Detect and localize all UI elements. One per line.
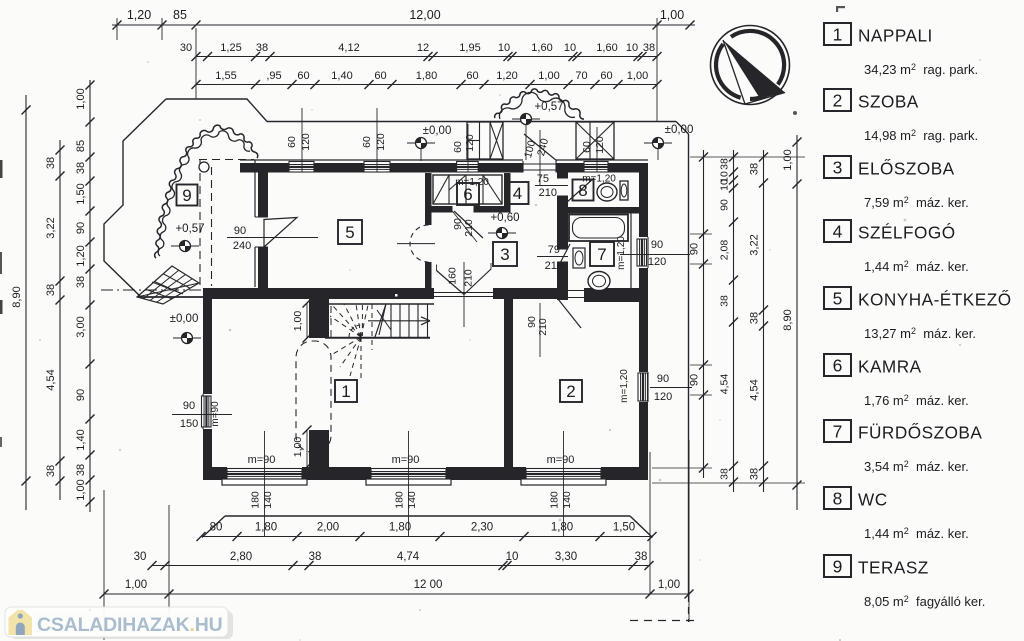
svg-text:NAPPALI: NAPPALI (858, 26, 933, 46)
svg-text:180: 180 (250, 491, 262, 509)
svg-text:180: 180 (549, 491, 561, 509)
svg-text:90: 90 (75, 389, 87, 401)
svg-text:+0,60: +0,60 (490, 212, 519, 224)
svg-text:±0,00: ±0,00 (665, 124, 694, 136)
svg-text:2,08: 2,08 (719, 240, 731, 261)
svg-text:m=90: m=90 (547, 454, 575, 466)
svg-text:1,00: 1,00 (627, 70, 648, 82)
svg-text:10: 10 (564, 42, 576, 54)
svg-text:38: 38 (719, 468, 731, 480)
svg-text:1: 1 (341, 382, 350, 401)
svg-text:210: 210 (537, 318, 549, 336)
WC room8 cistern/sink (620, 181, 628, 200)
svg-text:210: 210 (463, 219, 475, 237)
svg-text:1,40: 1,40 (331, 70, 352, 82)
svg-text:1,95: 1,95 (459, 42, 480, 54)
stair walk line with arrow (368, 320, 428, 322)
svg-text:3,22: 3,22 (45, 217, 57, 238)
svg-text:4,54: 4,54 (749, 379, 761, 400)
window top W4 (60/120) (584, 162, 608, 173)
svg-text:210: 210 (545, 260, 563, 272)
svg-text:140: 140 (561, 491, 573, 509)
svg-text:10: 10 (506, 551, 519, 563)
svg-text:90: 90 (234, 225, 246, 237)
stair risers (390, 304, 392, 338)
wall: room1/room2 partition (504, 299, 513, 467)
room label 5 KONYHA (338, 220, 362, 244)
svg-text:1,00: 1,00 (292, 311, 304, 332)
svg-text:90: 90 (689, 374, 701, 386)
svg-text:2,30: 2,30 (471, 522, 493, 534)
svg-text:m=90: m=90 (248, 454, 276, 466)
svg-text:1,20: 1,20 (75, 245, 87, 266)
toilet room7 (588, 272, 610, 291)
eaves outline right edge (688, 134, 690, 595)
stair boundary (328, 303, 434, 305)
svg-text:140: 140 (406, 491, 418, 509)
logo house icon (9, 610, 33, 635)
legend item 1 NAPPALI (824, 23, 851, 45)
svg-text:4,12: 4,12 (338, 42, 359, 54)
svg-text:7: 7 (597, 245, 606, 264)
bottom extension lines (103, 490, 105, 640)
svg-text:1,50: 1,50 (75, 183, 87, 204)
legend item 5 KONYHA-ÉTKEZŐ (824, 287, 851, 309)
svg-text:1,44 m2 máz. ker.: 1,44 m2 máz. ker. (864, 259, 969, 274)
svg-text:1,00: 1,00 (660, 8, 684, 22)
svg-text:3,54 m2 máz. ker.: 3,54 m2 máz. ker. (864, 459, 969, 474)
window leader bottom x=563.5 (563, 431, 565, 536)
svg-text:SZOBA: SZOBA (858, 92, 919, 112)
stair dashed verticals (361, 305, 363, 336)
svg-text:ELŐSZOBA: ELŐSZOBA (858, 159, 955, 179)
door hall-room2 (90/210) (557, 290, 584, 292)
svg-text:7: 7 (833, 422, 843, 442)
dimension chain left outer 8,90 (25, 95, 27, 510)
svg-text:85: 85 (75, 140, 87, 152)
svg-text:120: 120 (300, 133, 312, 151)
section line through terrace (101, 289, 204, 291)
legend item 7 FÜRDŐSZOBA (824, 420, 851, 442)
svg-text:±0,00: ±0,00 (170, 313, 199, 325)
svg-text:5: 5 (833, 289, 843, 309)
stair stub wall upper (309, 299, 329, 338)
svg-text:1,80: 1,80 (255, 522, 277, 534)
eaves bottom-left corner diagonal (202, 516, 225, 538)
svg-text:10: 10 (719, 179, 731, 191)
svg-text:1,00: 1,00 (538, 70, 559, 82)
svg-text:60: 60 (286, 136, 298, 148)
door hall-room1 double (160/210) (434, 292, 493, 294)
dimension row top 2 (196, 56, 657, 58)
door hall-room6 (90/210) (451, 206, 453, 213)
svg-text:9: 9 (182, 186, 191, 205)
door hall-room8 (75/210) (557, 177, 568, 179)
window leader bottom x=408.5 (408, 431, 410, 536)
north arrow compass (711, 26, 790, 105)
svg-text:3: 3 (833, 158, 843, 178)
north arrow needle (723, 40, 785, 99)
window bottom (180/140) at x=408.5 (371, 469, 446, 480)
svg-text:38: 38 (75, 464, 87, 476)
terrace hatched pad (137, 266, 199, 304)
svg-text:12,00: 12,00 (409, 8, 440, 22)
svg-text:38: 38 (643, 42, 655, 54)
window leader x=597 (596, 127, 598, 172)
wall: right exterior (639, 163, 648, 237)
svg-text:240: 240 (233, 240, 251, 252)
washbasin room7 (573, 248, 585, 268)
svg-text:10: 10 (498, 42, 510, 54)
svg-text:1,44 m2 máz. ker.: 1,44 m2 máz. ker. (864, 526, 969, 541)
svg-text:TERASZ: TERASZ (858, 558, 929, 578)
scan speckles (147, 61, 149, 63)
wall: room6/room4 partition (504, 173, 511, 206)
dimension row top 1 (112, 24, 695, 26)
svg-text:1,20: 1,20 (496, 70, 517, 82)
eaves outline top-right corner (676, 122, 689, 135)
svg-text:1,00: 1,00 (75, 88, 87, 109)
svg-text:14,98 m2 rag. park.: 14,98 m2 rag. park. (864, 128, 978, 143)
window leader x=468 (467, 124, 469, 172)
svg-text:4: 4 (833, 222, 843, 242)
legend item 4 SZÉLFOGÓ (824, 220, 851, 242)
room label 3 ELOSZOBA (493, 242, 517, 266)
svg-text:1,80: 1,80 (416, 70, 437, 82)
svg-text:38: 38 (719, 158, 731, 170)
top extension lines (195, 28, 197, 99)
svg-text:2: 2 (833, 91, 843, 111)
svg-text:38: 38 (75, 162, 87, 174)
svg-text:1,00: 1,00 (292, 437, 304, 458)
window left (90/150) room1 west (202, 394, 204, 429)
vine shrub terrace (155, 125, 258, 258)
svg-text:34,23 m2 rag. park.: 34,23 m2 rag. park. (864, 62, 978, 77)
svg-text:3,30: 3,30 (555, 551, 577, 563)
window room2 east (90/120) (647, 372, 649, 402)
svg-text:1,60: 1,60 (531, 42, 552, 54)
WC room8 toilet (597, 183, 617, 201)
svg-text:m=90: m=90 (392, 454, 420, 466)
eaves outline top edge (267, 121, 676, 123)
svg-text:8,90: 8,90 (782, 309, 794, 330)
svg-text:1,25: 1,25 (220, 42, 241, 54)
svg-text:1,00: 1,00 (125, 579, 147, 591)
stair stub wall lower (309, 430, 329, 467)
room label 8 WC (573, 180, 594, 201)
dashed flue outline room1 (296, 341, 331, 452)
svg-text:12 00: 12 00 (414, 579, 443, 591)
svg-text:4,74: 4,74 (397, 551, 420, 563)
svg-text:1,80: 1,80 (551, 522, 573, 534)
eaves outline top-left terrace (104, 99, 267, 297)
svg-text:SZÉLFOGÓ: SZÉLFOGÓ (858, 223, 956, 243)
terrace dashed edge lines (199, 159, 254, 161)
svg-text:180: 180 (394, 491, 406, 509)
window top W1 (60/120) (289, 162, 314, 173)
svg-text:38: 38 (309, 551, 322, 563)
svg-text:1,40: 1,40 (75, 429, 87, 450)
svg-text:7,59 m2 máz. ker.: 7,59 m2 máz. ker. (864, 195, 969, 210)
dimension chain right 4 (796, 135, 798, 510)
svg-text:90: 90 (183, 400, 195, 412)
svg-text:3,00: 3,00 (75, 316, 87, 337)
pantry shelves room 6 (433, 175, 502, 204)
svg-text:70: 70 (575, 70, 587, 82)
dimension chain right 3 (763, 150, 765, 492)
wall: left upper exterior (room 5 west) (254, 160, 256, 217)
wall: lower-left exterior (room 1 west) (203, 288, 212, 394)
bathtub room7 (569, 215, 628, 242)
legend item 9 TERASZ (824, 555, 851, 577)
wall: top exterior outer face (240, 159, 523, 161)
svg-text:8: 8 (578, 181, 587, 200)
svg-text:38: 38 (75, 276, 87, 288)
svg-text:60: 60 (297, 70, 309, 82)
wall: rooms 4-8 / hall partition (557, 163, 568, 178)
svg-text:150: 150 (180, 418, 198, 430)
svg-text:4: 4 (513, 184, 522, 203)
terrace bottom boundary (141, 296, 203, 298)
svg-text:4,54: 4,54 (45, 369, 57, 390)
dimension row bottom 2 (152, 565, 650, 567)
door terrace-room5 leaf triangle (264, 218, 297, 248)
svg-text:KAMRA: KAMRA (858, 357, 922, 377)
svg-text:6: 6 (833, 356, 843, 376)
svg-text:140: 140 (262, 491, 274, 509)
window bath east (90/120) (647, 237, 649, 268)
svg-text:38: 38 (256, 42, 268, 54)
wall: room8/room7 partition (568, 207, 639, 214)
dimension row bottom 3 (104, 593, 689, 595)
svg-text:38: 38 (749, 312, 761, 324)
svg-text:8,05 m2 fagyálló ker.: 8,05 m2 fagyálló ker. (864, 594, 985, 609)
svg-text:KONYHA-ÉTKEZŐ: KONYHA-ÉTKEZŐ (858, 290, 1012, 310)
svg-text:90: 90 (719, 199, 731, 211)
svg-text:WC: WC (858, 490, 888, 510)
svg-text:13,27 m2 máz. ker.: 13,27 m2 máz. ker. (864, 326, 976, 341)
room label 4 SZELFOGO (507, 182, 529, 204)
porch column B with cross bracing (576, 122, 614, 159)
svg-text:1,50: 1,50 (613, 522, 635, 534)
svg-text:85: 85 (173, 8, 187, 22)
svg-text:60: 60 (600, 70, 612, 82)
svg-text:60: 60 (361, 136, 373, 148)
window top W2 (60/120) (364, 162, 390, 173)
svg-text:60: 60 (466, 70, 478, 82)
svg-text:+0,57: +0,57 (175, 223, 204, 235)
svg-text:79: 79 (548, 244, 560, 256)
wall: room5 east partition (425, 173, 432, 225)
svg-text:38: 38 (45, 465, 57, 477)
svg-text:1,60: 1,60 (596, 42, 617, 54)
svg-text:60: 60 (374, 70, 386, 82)
svg-text:90: 90 (657, 373, 669, 385)
door room5-hall dashed swing arc (410, 225, 429, 262)
window leader x=302 (301, 108, 303, 172)
svg-text:60: 60 (581, 141, 593, 153)
svg-text:80: 80 (210, 522, 223, 534)
room label 9 TERASZ (177, 185, 198, 206)
svg-text:120: 120 (654, 391, 672, 403)
door terrace-room5 (90/240) opening (255, 216, 268, 218)
logo csaladihazak.hu watermark (10, 611, 233, 639)
wall: room6 south (431, 206, 452, 213)
room label 6 KAMRA (457, 183, 479, 205)
legend item 8 WC (824, 487, 851, 509)
svg-text:9: 9 (833, 557, 843, 577)
dimension row bottom 1 (202, 536, 652, 538)
entrance door (100/240) (522, 161, 524, 173)
right extension lines (690, 156, 805, 158)
svg-text:30: 30 (134, 551, 147, 563)
svg-text:1,55: 1,55 (215, 70, 236, 82)
svg-text:8,90: 8,90 (11, 286, 23, 307)
svg-text:1,80: 1,80 (389, 522, 411, 534)
svg-text:8: 8 (833, 489, 843, 509)
scan edge artifacts (0, 160, 3, 178)
svg-text:2: 2 (566, 382, 575, 401)
legend item 2 SZOBA (824, 89, 851, 111)
window bottom (180/140) at x=563.5 (526, 469, 601, 480)
svg-text:160: 160 (447, 267, 459, 285)
svg-text:120: 120 (464, 134, 476, 152)
eaves outline bottom edge (225, 515, 630, 517)
window leader bottom x=264.5 (264, 431, 266, 536)
svg-text:CSALADIHAZAK.HU: CSALADIHAZAK.HU (37, 614, 223, 636)
window leader x=377 (376, 108, 378, 172)
dimension chain right 2 (733, 150, 735, 492)
svg-text:60: 60 (452, 141, 464, 153)
window top W3 (60/120) (457, 162, 479, 173)
svg-text:90: 90 (689, 243, 701, 255)
svg-text:30: 30 (180, 42, 192, 54)
svg-text:1,20: 1,20 (127, 8, 151, 22)
svg-text:75: 75 (537, 173, 549, 185)
svg-text:FÜRDŐSZOBA: FÜRDŐSZOBA (858, 423, 982, 443)
window bottom (180/140) at x=264.5 (227, 469, 302, 480)
svg-text:1,00: 1,00 (658, 579, 680, 591)
wall: middle spine (203, 288, 434, 299)
svg-text:12: 12 (417, 42, 429, 54)
room label 2 SZOBA (560, 380, 582, 402)
svg-text:1: 1 (833, 25, 843, 45)
svg-text:38: 38 (719, 295, 731, 307)
legend item 3 ELŐSZOBA (824, 156, 851, 178)
eaves outline bottom dashed (630, 620, 697, 622)
terrace post circle (199, 162, 209, 172)
svg-text:+0,57: +0,57 (534, 101, 563, 113)
svg-text:2,80: 2,80 (230, 551, 252, 563)
svg-text:120: 120 (648, 256, 666, 268)
svg-text:90: 90 (75, 222, 87, 234)
svg-text:1,00: 1,00 (75, 479, 87, 500)
dimension chain right 1 (703, 150, 705, 478)
room label 1 NAPPALI (335, 380, 357, 402)
svg-text:10: 10 (626, 42, 638, 54)
dimension chain left inner (89, 80, 91, 512)
svg-text:m=90: m=90 (210, 401, 221, 427)
dimension chain left middle (59, 140, 61, 500)
wall: bathroom east inner face (630, 213, 632, 296)
stair winder dashed radials (330, 316, 361, 337)
wall: top exterior band (240, 163, 289, 173)
svg-text:2,00: 2,00 (317, 522, 339, 534)
room label 7 FURDOSZOBA (590, 242, 614, 266)
outlet symbol on wall (394, 293, 400, 299)
svg-text:38: 38 (749, 468, 761, 480)
svg-text:6: 6 (463, 185, 472, 204)
svg-text:5: 5 (345, 223, 354, 242)
dimension row top 3 (196, 84, 657, 86)
svg-text:120: 120 (375, 133, 387, 151)
svg-text:3,22: 3,22 (749, 234, 761, 255)
door hall-bath (79/210) (557, 248, 568, 250)
svg-text:±0,00: ±0,00 (423, 125, 452, 137)
svg-text:m=1,20: m=1,20 (619, 369, 630, 403)
porch column A with cross bracing (467, 122, 503, 159)
wall: bottom exterior (203, 467, 227, 480)
svg-text:38: 38 (635, 551, 648, 563)
svg-text:90: 90 (651, 239, 663, 251)
svg-text:38: 38 (749, 163, 761, 175)
svg-text:210: 210 (539, 187, 557, 199)
vine shrub entrance (495, 89, 584, 119)
svg-text:210: 210 (463, 269, 475, 287)
svg-text:1,76 m2 máz. ker.: 1,76 m2 máz. ker. (864, 393, 969, 408)
legend item 6 KAMRA (824, 354, 851, 376)
svg-text:3: 3 (500, 245, 509, 264)
svg-text:38: 38 (45, 284, 57, 296)
svg-text:38: 38 (45, 157, 57, 169)
svg-text:,95: ,95 (266, 70, 281, 82)
svg-text:4,54: 4,54 (719, 374, 731, 395)
eaves bottom-right corner diagonal (630, 516, 653, 538)
svg-text:1,00: 1,00 (782, 149, 794, 170)
